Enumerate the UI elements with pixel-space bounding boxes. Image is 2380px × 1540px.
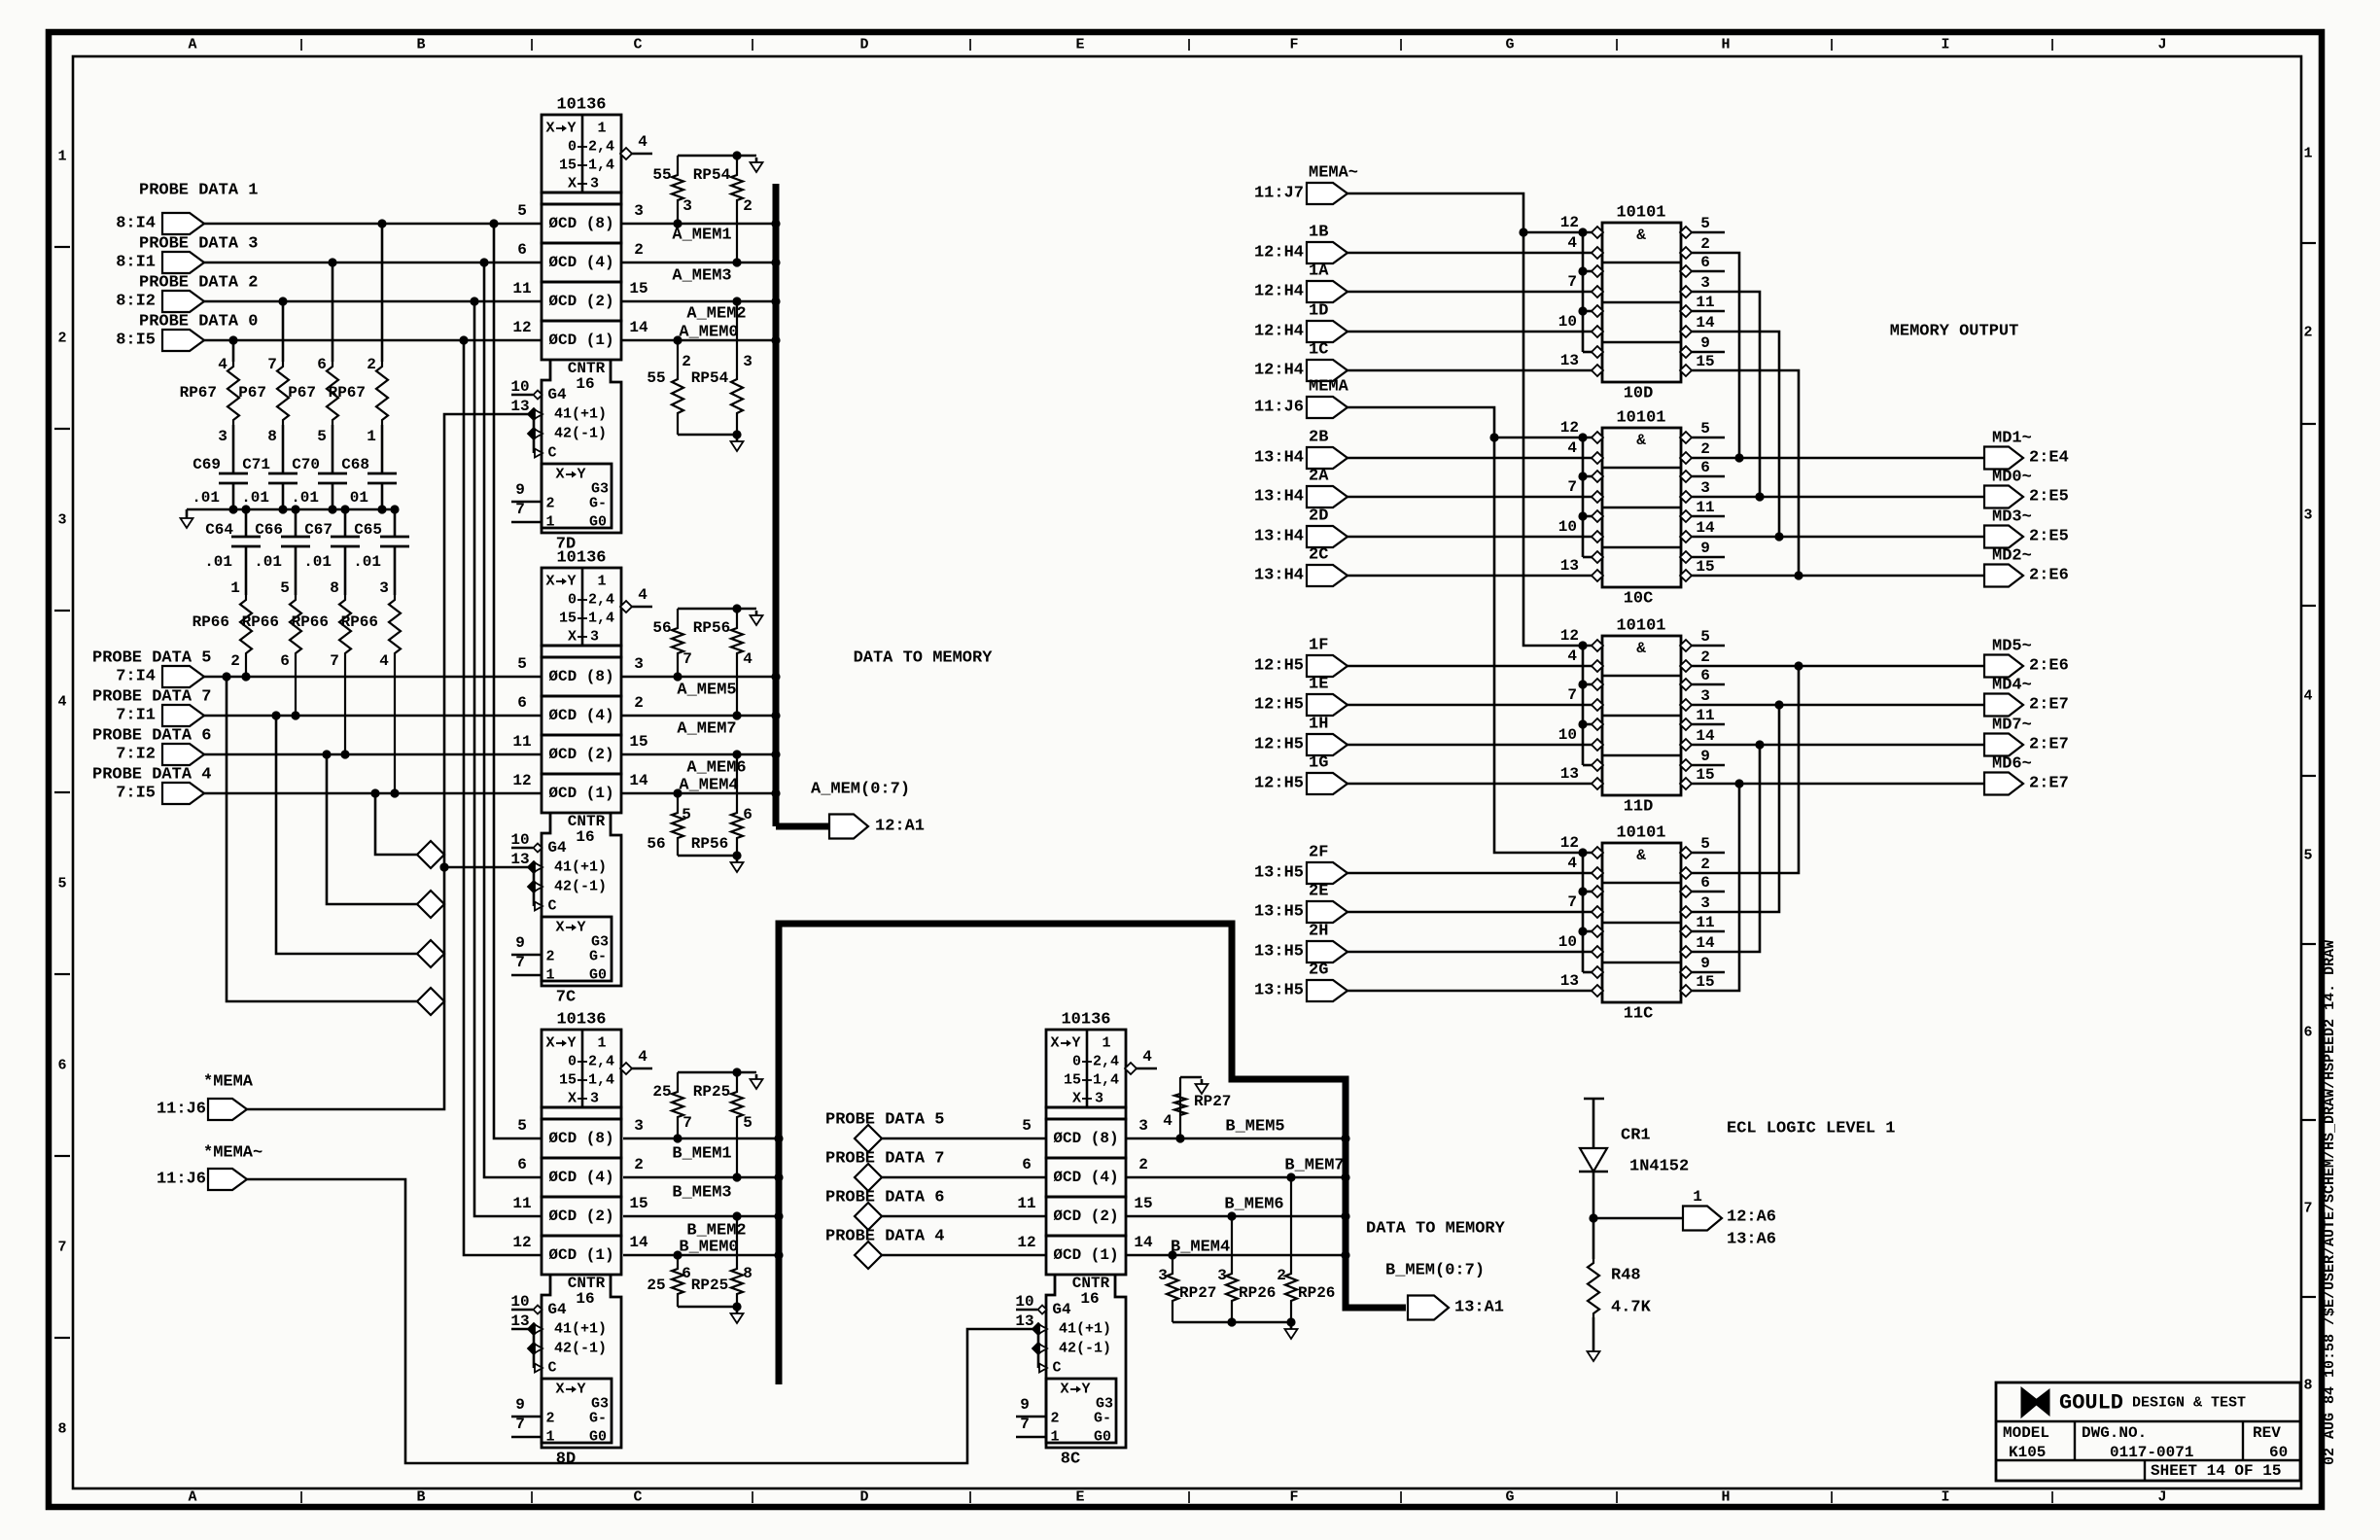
- svg-text:10101: 10101: [1616, 824, 1665, 843]
- wire MD4~ memory data output: [1691, 704, 1984, 707]
- svg-text:RP54: RP54: [691, 369, 729, 387]
- wire 1B to gate input: [1347, 252, 1592, 255]
- svg-text:PROBE DATA 4: PROBE DATA 4: [825, 1228, 944, 1246]
- svg-text:4: 4: [638, 586, 647, 604]
- output tag MD2~ to 2:E6: [1984, 547, 2069, 587]
- wire MD6~ memory data output: [1691, 783, 1984, 786]
- svg-text:G: G: [1505, 1489, 1514, 1506]
- gate 11C input pin numbers 12 4 7 10 13: [1558, 834, 1579, 990]
- note DATA TO MEMORY upper: [854, 649, 994, 668]
- svg-text:7: 7: [1020, 1416, 1030, 1433]
- svg-text:2F: 2F: [1309, 844, 1328, 862]
- IC 8C separator strip: [1046, 1107, 1126, 1119]
- IC 7D separator strip: [542, 192, 621, 204]
- svg-text:9: 9: [1700, 955, 1710, 972]
- svg-text:12:H5: 12:H5: [1254, 657, 1304, 676]
- svg-text:60: 60: [2269, 1444, 2288, 1461]
- svg-text:ØCD (8): ØCD (8): [548, 668, 613, 685]
- wire 8D pin 13 stub: [511, 1328, 528, 1331]
- output tag MD7~ to 2:E7: [1984, 717, 2069, 756]
- svg-text:13:H5: 13:H5: [1254, 864, 1304, 883]
- svg-text:13:H4: 13:H4: [1254, 528, 1304, 546]
- svg-text:RP27: RP27: [1179, 1284, 1216, 1302]
- svg-text:PROBE DATA 0: PROBE DATA 0: [139, 313, 258, 332]
- wire 2A to gate input: [1347, 496, 1592, 499]
- svg-text:C67: C67: [304, 521, 332, 539]
- svg-text:3: 3: [590, 1091, 599, 1107]
- svg-text:G4: G4: [1052, 1301, 1071, 1318]
- resistor RP67 pin 2-1 on probe wire: [329, 219, 388, 445]
- svg-text:8:I2: 8:I2: [116, 293, 156, 311]
- svg-text:11: 11: [1696, 294, 1714, 311]
- svg-text:I: I: [1941, 37, 1949, 53]
- svg-text:8:I4: 8:I4: [116, 215, 156, 233]
- svg-text:2: 2: [545, 949, 554, 965]
- note ECL LOGIC LEVEL 1: [1727, 1120, 1895, 1138]
- svg-text:1: 1: [597, 121, 606, 137]
- svg-text:5: 5: [280, 579, 290, 597]
- node PROBE DATA 5 diamond marker: [417, 988, 444, 1015]
- IC 7C 10136 part number: [556, 549, 606, 568]
- wire A_MEM4 7C pin14: [621, 777, 773, 795]
- svg-text:6: 6: [1700, 667, 1710, 684]
- svg-text:15: 15: [629, 280, 647, 297]
- svg-text:ØCD (8): ØCD (8): [548, 1130, 613, 1147]
- wire 10D-15 to MD2~ junction: [1691, 370, 1803, 580]
- svg-text:ØCD (4): ØCD (4): [548, 254, 613, 271]
- svg-text:MD2~: MD2~: [1992, 547, 2032, 566]
- svg-text:|: |: [1828, 1490, 1836, 1505]
- svg-text:2,4: 2,4: [588, 1054, 614, 1070]
- svg-text:14: 14: [1134, 1234, 1153, 1251]
- svg-text:RP56: RP56: [693, 619, 730, 637]
- svg-text:6: 6: [1022, 1156, 1032, 1173]
- svg-text:4: 4: [638, 133, 647, 151]
- svg-text:H: H: [1721, 1489, 1730, 1506]
- svg-text:1A: 1A: [1309, 262, 1329, 281]
- wire PROBE DATA 6 to 7C: [204, 753, 542, 756]
- IC 7C pins 13 clock inputs 41(+1) 42(-1) C: [510, 851, 607, 915]
- input tag 13:H5 2H: [1254, 923, 1347, 963]
- svg-text:13: 13: [1560, 972, 1579, 990]
- wire A_MEM6 7C pin15: [621, 754, 773, 778]
- svg-text:12:A6: 12:A6: [1727, 1208, 1776, 1227]
- svg-text:15: 15: [1696, 973, 1714, 991]
- svg-text:2E: 2E: [1309, 883, 1328, 901]
- svg-text:0: 0: [568, 1054, 577, 1070]
- ground rail for termination caps: [181, 505, 400, 528]
- IC 8C section OCD(2) pin 11/15: [1017, 1195, 1152, 1236]
- output tag MD6~ to 2:E7: [1984, 755, 2069, 795]
- svg-text:3: 3: [2303, 507, 2312, 524]
- svg-text:1H: 1H: [1309, 716, 1328, 734]
- svg-text:5: 5: [2303, 848, 2312, 864]
- svg-text:12: 12: [1560, 214, 1579, 231]
- svg-text:11: 11: [1017, 1195, 1035, 1212]
- resistor pack RP54 pins 2/3 pull-downs: [647, 297, 752, 451]
- svg-text:5: 5: [1700, 835, 1710, 853]
- wire 10D-2 to MD1~ junction: [1691, 253, 1744, 463]
- svg-text:PROBE DATA 1: PROBE DATA 1: [139, 182, 258, 200]
- svg-text:X: X: [545, 121, 554, 137]
- svg-text:C: C: [547, 898, 556, 915]
- gate 11C output pins 5 2 6 3 11 14 9 15: [1680, 835, 1725, 997]
- svg-text:5: 5: [1700, 420, 1710, 437]
- svg-text:ØCD (1): ØCD (1): [548, 1246, 613, 1264]
- note DATA TO MEMORY lower: [1366, 1220, 1506, 1239]
- wire B_MEM3 8D pin2: [623, 1177, 776, 1203]
- node PROBE DATA 6 diamond marker: [417, 891, 444, 918]
- svg-text:|: |: [297, 38, 305, 52]
- gate 11D input pin numbers 12 4 7 10 13: [1558, 627, 1579, 783]
- svg-text:&: &: [1636, 640, 1646, 657]
- svg-text:13: 13: [510, 851, 529, 868]
- IC 8D reference designator: [556, 1451, 576, 1469]
- svg-text:X: X: [545, 1035, 554, 1052]
- svg-text:MD3~: MD3~: [1992, 508, 2032, 527]
- svg-text:E: E: [1075, 1489, 1084, 1506]
- resistor P67 pin 7-8 on probe wire: [238, 297, 289, 445]
- svg-text:G0: G0: [589, 1429, 607, 1446]
- svg-text:Y: Y: [1081, 1382, 1090, 1398]
- svg-text:7: 7: [515, 1416, 525, 1433]
- wire PROBE DATA 3 to 7D: [204, 262, 542, 264]
- svg-text:3: 3: [1158, 1267, 1168, 1284]
- svg-text:10136: 10136: [556, 1011, 606, 1030]
- svg-text:10C: 10C: [1624, 590, 1654, 609]
- node PROBE DATA 7 diamond marker: [417, 940, 444, 967]
- svg-text:7: 7: [1567, 686, 1577, 704]
- svg-text:2: 2: [1700, 856, 1710, 873]
- svg-text:7: 7: [1567, 893, 1577, 911]
- gate 11D reference designator: [1624, 798, 1654, 817]
- svg-text:56: 56: [652, 619, 671, 637]
- svg-text:C71: C71: [242, 456, 270, 473]
- svg-text:3: 3: [1700, 894, 1710, 912]
- svg-text:X: X: [1050, 1035, 1059, 1052]
- svg-text:5: 5: [1700, 628, 1710, 646]
- gate 11D 10101 part number: [1616, 617, 1665, 636]
- svg-text:12: 12: [512, 1234, 531, 1251]
- gate 10D 10101 part number: [1616, 204, 1665, 223]
- svg-text:|: |: [2048, 1490, 2056, 1505]
- svg-text:ØCD (4): ØCD (4): [548, 707, 613, 724]
- svg-text:2: 2: [634, 694, 644, 712]
- svg-text:|: |: [297, 1490, 305, 1505]
- svg-text:5: 5: [517, 1117, 527, 1135]
- svg-text:GOULD: GOULD: [2059, 1391, 2123, 1416]
- wire 11C-3 to MD4~ junction: [1691, 700, 1784, 912]
- svg-text:42(-1): 42(-1): [554, 879, 607, 895]
- svg-text:RP26: RP26: [1239, 1284, 1276, 1302]
- svg-text:ECL LOGIC LEVEL 1: ECL LOGIC LEVEL 1: [1727, 1120, 1895, 1138]
- svg-text:4: 4: [218, 356, 227, 373]
- svg-text:A_MEM3: A_MEM3: [672, 267, 731, 286]
- node PROBE DATA 7 diamond marker at 8C: [825, 1150, 1046, 1192]
- svg-text:DESIGN & TEST: DESIGN & TEST: [2132, 1395, 2246, 1412]
- svg-text:G0: G0: [589, 514, 607, 531]
- svg-text:3: 3: [634, 1117, 644, 1135]
- svg-text:MD4~: MD4~: [1992, 677, 2032, 695]
- gate 11C input pin diamonds: [1592, 847, 1603, 997]
- svg-text:14: 14: [1696, 314, 1715, 332]
- svg-text:C: C: [547, 1360, 556, 1377]
- svg-text:2,4: 2,4: [588, 139, 614, 156]
- svg-text:RP26: RP26: [1298, 1284, 1335, 1302]
- svg-text:|: |: [1185, 38, 1193, 52]
- svg-text:7: 7: [682, 1114, 692, 1132]
- svg-text:4: 4: [1567, 855, 1577, 872]
- IC 7C separator strip: [542, 646, 621, 657]
- svg-text:G4: G4: [547, 386, 567, 403]
- svg-text:42(-1): 42(-1): [554, 426, 607, 442]
- svg-text:2G: 2G: [1309, 962, 1328, 980]
- svg-text:G-: G-: [1094, 1411, 1111, 1427]
- wire 1C to gate input: [1347, 369, 1592, 372]
- svg-text:4: 4: [2303, 688, 2312, 705]
- svg-text:15: 15: [559, 157, 577, 174]
- input tag 7:I1 PROBE DATA 7: [92, 688, 211, 727]
- svg-text:6: 6: [317, 356, 327, 373]
- svg-text:Y: Y: [567, 574, 576, 590]
- wire *MEMA~ to counter 8C: [247, 1179, 1036, 1463]
- svg-text:8: 8: [743, 1265, 752, 1282]
- input tag 12:H5 1E: [1254, 676, 1347, 717]
- gate 10C input pin diamonds: [1592, 432, 1603, 581]
- svg-text:4: 4: [743, 650, 752, 668]
- title DWG.NO. 0117-0071: [2082, 1424, 2193, 1461]
- wire MD5~ memory data output: [1691, 665, 1984, 668]
- svg-text:DATA TO MEMORY: DATA TO MEMORY: [1366, 1220, 1506, 1239]
- svg-text:ØCD (2): ØCD (2): [548, 1207, 613, 1225]
- svg-text:7: 7: [267, 356, 277, 373]
- svg-text:MD6~: MD6~: [1992, 755, 2032, 774]
- svg-text:RP54: RP54: [693, 166, 731, 184]
- svg-text:15: 15: [1134, 1195, 1152, 1212]
- wire PROBE DATA 2 drop to 8D pin 11: [470, 297, 542, 1216]
- svg-text:13: 13: [1560, 557, 1579, 575]
- svg-text:C65: C65: [354, 521, 382, 539]
- svg-text:PROBE DATA 7: PROBE DATA 7: [825, 1150, 944, 1169]
- ground below R48: [1588, 1317, 1600, 1361]
- wire 2G to gate input: [1347, 990, 1592, 993]
- svg-text:6: 6: [743, 806, 752, 823]
- svg-text:B_MEM1: B_MEM1: [672, 1145, 731, 1164]
- svg-text:11: 11: [1696, 914, 1714, 931]
- svg-text:.01: .01: [192, 489, 220, 507]
- svg-text:12:H4: 12:H4: [1254, 244, 1304, 262]
- svg-text:6: 6: [517, 241, 527, 259]
- svg-text:A_MEM0: A_MEM0: [679, 324, 738, 342]
- wire PROBE DATA 6 to net diamond: [322, 750, 417, 904]
- IC 7C pin 9 and 7 stubs: [511, 934, 542, 975]
- svg-text:C: C: [1052, 1360, 1061, 1377]
- wire PROBE DATA 2 to 7D: [204, 300, 542, 303]
- input tag 7:I2 PROBE DATA 6: [92, 727, 211, 766]
- gate 10C reference designator: [1624, 590, 1654, 609]
- gate 10C 10101 part number: [1616, 409, 1665, 428]
- input tag 13:H4 2C: [1254, 546, 1347, 587]
- svg-text:10: 10: [1558, 933, 1577, 951]
- svg-text:2: 2: [2303, 325, 2312, 341]
- svg-text:15: 15: [1696, 353, 1714, 370]
- input tag 11:J7 MEMA~: [1254, 164, 1358, 205]
- svg-text:8: 8: [57, 1421, 66, 1438]
- svg-text:8C: 8C: [1061, 1451, 1080, 1469]
- svg-text:C: C: [633, 1489, 642, 1506]
- gate 10C input pin numbers 12 4 7 10 13: [1558, 419, 1579, 575]
- IC 7D X to Y output gate box: [542, 464, 612, 531]
- svg-text:2D: 2D: [1309, 507, 1328, 526]
- svg-text:1: 1: [2303, 146, 2312, 162]
- resistor P67 pin 6-5 on probe wire: [288, 258, 338, 445]
- svg-text:RP66: RP66: [242, 613, 279, 631]
- svg-text:13: 13: [1560, 765, 1579, 783]
- svg-text:&: &: [1636, 847, 1646, 864]
- svg-text:2:E5: 2:E5: [2029, 488, 2069, 507]
- svg-text:9: 9: [1700, 748, 1710, 765]
- svg-text:11:J7: 11:J7: [1254, 185, 1304, 203]
- svg-text:12:H5: 12:H5: [1254, 736, 1304, 754]
- gate 11C strobe distribution wire: [1578, 848, 1592, 972]
- IC 8D CNTR section outline: [542, 1275, 621, 1448]
- wire PROBE DATA 1 drop to 8D pin 5: [489, 219, 542, 1138]
- svg-text:1,4: 1,4: [588, 611, 614, 627]
- svg-text:10101: 10101: [1616, 204, 1665, 223]
- wire 2F to gate input: [1347, 872, 1592, 875]
- svg-text:10: 10: [510, 1293, 529, 1311]
- wire B_MEM0 8D pin14: [623, 1239, 776, 1257]
- node PROBE DATA 6 diamond marker at 8C: [825, 1189, 1046, 1231]
- wire A_MEM7 7C pin2: [621, 716, 773, 739]
- svg-text:ØCD (1): ØCD (1): [548, 332, 613, 349]
- svg-text:16: 16: [576, 375, 594, 393]
- svg-text:16: 16: [1080, 1290, 1099, 1308]
- svg-text:13:H4: 13:H4: [1254, 488, 1304, 507]
- svg-text:10101: 10101: [1616, 617, 1665, 636]
- svg-text:5: 5: [743, 1114, 752, 1132]
- svg-text:G4: G4: [547, 1301, 567, 1318]
- svg-text:12:H5: 12:H5: [1254, 775, 1304, 793]
- resistor RP26 pin 3 pull-down: [1217, 1211, 1276, 1322]
- svg-text:B_MEM4: B_MEM4: [1171, 1239, 1230, 1257]
- svg-text:1F: 1F: [1309, 637, 1328, 655]
- svg-text:RP27: RP27: [1194, 1093, 1231, 1110]
- svg-text:2: 2: [743, 197, 752, 215]
- svg-text:7: 7: [515, 501, 525, 518]
- svg-text:8: 8: [267, 428, 277, 445]
- svg-text:4.7K: 4.7K: [1611, 1299, 1652, 1317]
- svg-text:RP67: RP67: [329, 384, 366, 402]
- svg-text:Y: Y: [577, 920, 585, 936]
- svg-text:11C: 11C: [1624, 1005, 1654, 1024]
- svg-text:0: 0: [568, 139, 577, 156]
- gate 11D input pin diamonds: [1592, 640, 1603, 789]
- svg-text:7:I5: 7:I5: [116, 785, 156, 803]
- input tag 12:H5 1F: [1254, 637, 1347, 678]
- output tag MD4~ to 2:E7: [1984, 677, 2069, 717]
- svg-text:2: 2: [1700, 440, 1710, 458]
- svg-text:6: 6: [2303, 1025, 2312, 1041]
- wire MD2~ memory data output: [1691, 575, 1984, 577]
- svg-text:A_MEM7: A_MEM7: [677, 720, 736, 739]
- resistor pack RP54 pins 3/2 pull-downs: [652, 151, 762, 266]
- wire 1G to gate input: [1347, 783, 1592, 786]
- svg-text:12:H4: 12:H4: [1254, 362, 1304, 380]
- svg-text:12: 12: [1017, 1234, 1035, 1251]
- IC 8D 10136 part number: [556, 1011, 606, 1030]
- svg-text:C68: C68: [341, 456, 369, 473]
- svg-text:2:E6: 2:E6: [2029, 657, 2069, 676]
- svg-text:1: 1: [1693, 1188, 1702, 1206]
- IC 8D separator strip: [542, 1107, 621, 1119]
- input tag 11:J6 *MEMA~: [157, 1144, 262, 1191]
- svg-text:ØCD (1): ØCD (1): [548, 785, 613, 802]
- svg-text:9: 9: [1020, 1396, 1030, 1414]
- row grid labels 1-8 left and right: [54, 146, 2316, 1438]
- svg-text:1: 1: [545, 1429, 554, 1446]
- input tag 8:I4 PROBE DATA 1: [116, 182, 258, 235]
- B_MEM data bus heavy line: [774, 924, 1406, 1384]
- svg-text:12:H5: 12:H5: [1254, 696, 1304, 715]
- resistor RP66 pin 3-4: [341, 579, 401, 798]
- svg-text:ØCD (4): ØCD (4): [548, 1169, 613, 1186]
- svg-text:A_MEM4: A_MEM4: [679, 777, 738, 795]
- svg-text:3: 3: [1700, 687, 1710, 705]
- wire B_MEM4 8C pin14: [1126, 1239, 1346, 1257]
- resistor RP66 pin 1-2: [192, 579, 252, 682]
- wire A_MEM3 7D pin2: [621, 262, 773, 286]
- svg-text:|: |: [966, 1490, 974, 1505]
- svg-text:9: 9: [515, 1396, 525, 1414]
- svg-text:MD7~: MD7~: [1992, 717, 2032, 735]
- plot file stamp vertical text: [2322, 940, 2338, 1465]
- svg-text:.01: .01: [303, 553, 332, 571]
- svg-text:2C: 2C: [1309, 546, 1328, 565]
- wire PROBE DATA 1 to 7D: [204, 223, 542, 226]
- svg-text:B_MEM0: B_MEM0: [679, 1239, 738, 1257]
- svg-text:12: 12: [512, 772, 531, 789]
- svg-text:F: F: [1289, 1489, 1298, 1506]
- svg-text:3: 3: [634, 202, 644, 220]
- svg-text:X: X: [555, 467, 564, 483]
- svg-text:4: 4: [57, 694, 66, 711]
- svg-text:4: 4: [638, 1048, 647, 1066]
- gate 10C strobe distribution wire: [1578, 433, 1592, 557]
- svg-text:4: 4: [1567, 439, 1577, 457]
- svg-text:12: 12: [1560, 834, 1579, 852]
- svg-text:Y: Y: [1071, 1035, 1080, 1052]
- svg-text:13:A6: 13:A6: [1727, 1231, 1776, 1249]
- IC 8D section OCD(8) pin 5/3: [517, 1117, 644, 1158]
- wire PROBE DATA 7 to 7C: [204, 715, 542, 717]
- capacitor C65 .01: [353, 509, 409, 595]
- output tag MD3~ to 2:E5: [1984, 508, 2069, 548]
- capacitor C69 .01: [192, 425, 248, 509]
- wire 1D to gate input: [1347, 331, 1592, 333]
- svg-text:|: |: [1613, 38, 1621, 52]
- svg-text:56: 56: [647, 835, 665, 853]
- svg-text:41(+1): 41(+1): [554, 406, 607, 423]
- wire 11C-2 to MD5~ junction: [1691, 661, 1803, 873]
- wire 1E to gate input: [1347, 704, 1592, 707]
- svg-text:ØCD (4): ØCD (4): [1053, 1169, 1118, 1186]
- svg-text:14: 14: [629, 319, 648, 336]
- svg-text:A_MEM5: A_MEM5: [677, 682, 736, 700]
- svg-text:RP25: RP25: [691, 1277, 728, 1294]
- wire B_MEM1 8D pin3: [623, 1138, 776, 1164]
- svg-text:RP25: RP25: [693, 1083, 730, 1101]
